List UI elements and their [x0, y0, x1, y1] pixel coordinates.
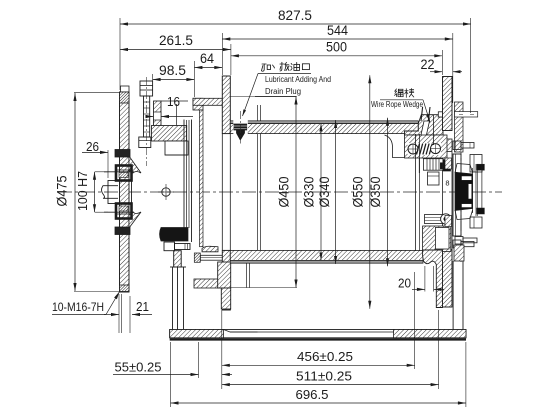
coupling top trapezoid [455, 164, 473, 173]
dim phi475 ext top [74, 91, 119, 93]
dim 544 [222, 38, 452, 40]
svg-text:21: 21 [136, 299, 149, 314]
leader wedge slant [423, 100, 430, 122]
hub nut band upper [115, 150, 130, 158]
dim 696.5 ext [170, 342, 172, 407]
lower clamp bolt shaft [425, 215, 443, 224]
dim phi450 [295, 97, 297, 288]
base plate bottom thick [170, 338, 466, 340]
bolt head band [140, 85, 153, 87]
coupling white slot vertical [468, 184, 471, 199]
drum left flange lower hatched [222, 250, 230, 310]
rope barrel wall upper hatched [230, 124, 418, 134]
wedge slot [420, 121, 430, 141]
lower clamp bolt head [441, 214, 451, 224]
hub sleeve [108, 181, 132, 204]
leader english underline [255, 96, 296, 98]
right bolt lower [453, 240, 461, 248]
svg-text:Drain Plug: Drain Plug [265, 87, 301, 96]
bearing sleeve lines [183, 120, 185, 229]
svg-text:100 H7: 100 H7 [75, 171, 90, 211]
svg-text:16: 16 [167, 95, 180, 109]
right bolt upper [453, 141, 461, 150]
black bits right of spline [443, 160, 451, 171]
support bracket top lines [161, 100, 188, 102]
dim 98.5 [153, 79, 195, 81]
dim 64 extension [221, 33, 223, 75]
support white block below [165, 141, 188, 155]
dim phi475 ext bottom [74, 291, 119, 293]
dim phi350 [387, 118, 389, 266]
svg-text:Wire Rope Wedge: Wire Rope Wedge [371, 100, 423, 109]
dim 100 H7 [94, 172, 96, 212]
svg-text:Lubricant Adding And: Lubricant Adding And [265, 75, 331, 84]
clamp rope strands [417, 144, 420, 155]
dim 827.5 [120, 23, 471, 25]
hub nut band lower [115, 227, 130, 235]
base plate mid step [224, 330, 258, 333]
coupling right lines [472, 168, 474, 213]
dim 500 extension right [441, 50, 443, 75]
bolt lug hump hatched [202, 246, 218, 252]
dim 827.5 extension left [119, 18, 121, 90]
lower rib gusset [129, 212, 141, 228]
dim 55 ext [198, 342, 200, 378]
clamp rope slot white [408, 143, 442, 155]
dim phi340 [335, 120, 337, 264]
drum shell lower hatched [194, 279, 218, 288]
bolt thread ticks [144, 101, 150, 103]
svg-text:696.5: 696.5 [296, 387, 329, 402]
svg-text:55±0.25: 55±0.25 [115, 360, 162, 375]
svg-text:10-M16-7H: 10-M16-7H [52, 300, 104, 314]
base plate left hatched [170, 330, 224, 338]
left flange top dense zone [120, 92, 130, 103]
right bracket stud band [455, 112, 478, 117]
svg-text:500: 500 [326, 40, 347, 55]
dim 511+-0.25 [222, 384, 439, 386]
support hatched block lower [174, 251, 182, 267]
drum left flange face lines [221, 134, 223, 251]
shaft end with break line [102, 186, 119, 199]
right flange inner lines [415, 134, 417, 251]
svg-text:544: 544 [327, 23, 348, 38]
left pedestal column [172, 267, 174, 330]
dim 511 ext [438, 310, 440, 389]
right hatched block bottom [445, 216, 452, 227]
block below spline [428, 172, 440, 185]
svg-text:8: 8 [445, 179, 449, 188]
lubricant plug dark [234, 124, 247, 140]
dim 696.5 [171, 402, 466, 404]
wedge pins [421, 107, 423, 121]
base plate outline [170, 330, 466, 338]
dim phi550 [369, 75, 371, 308]
flange lower pocket white [435, 228, 449, 250]
clamp pocket contour [385, 135, 405, 158]
seal black blob lower [160, 228, 189, 242]
hub key block lower black [116, 204, 132, 219]
base plate right hatched [394, 330, 466, 338]
chinese text shengxie [394, 89, 403, 97]
dim phi475 [74, 93, 76, 291]
right flange upper hatched [443, 77, 453, 131]
clamp bolt circle right [431, 144, 441, 154]
dim 261.5 extension right [230, 44, 232, 75]
svg-text:511±0.25: 511±0.25 [296, 369, 352, 384]
plug pocket white [233, 118, 248, 140]
dim 64 [194, 67, 222, 69]
wedge seat hatch upper [405, 115, 444, 135]
plug centerline [239, 111, 241, 144]
coupling white slot upper [462, 176, 472, 180]
main axis centerline [58, 191, 502, 193]
dim 22 [430, 71, 443, 73]
bolt centerline [145, 77, 147, 166]
svg-text:20: 20 [398, 276, 411, 291]
sleeve top edge [165, 154, 188, 156]
svg-text:Ø350: Ø350 [367, 176, 383, 207]
splined block [423, 159, 443, 171]
rope barrel wall lower hatched [230, 250, 423, 260]
right coupling black mass [455, 172, 473, 210]
bolt shank [144, 96, 150, 137]
dim 98.5 extensions [152, 74, 154, 81]
leader wedge underline [380, 99, 423, 101]
right pedestal hatched block [454, 245, 464, 261]
right flange lower hatched [443, 250, 453, 307]
dim 456 ext [221, 310, 223, 389]
pedestal horizontal bolt head hatched [194, 253, 200, 262]
svg-text:Ø450: Ø450 [276, 176, 292, 207]
wedge clamp block hatched [405, 135, 448, 158]
svg-text:456±0.25: 456±0.25 [297, 349, 353, 364]
drum shell upper hatched [193, 98, 223, 105]
dim phi330 [320, 124, 322, 261]
shaft bore line upper [104, 171, 134, 173]
left pedestal top plate [170, 266, 186, 268]
right bracket column hatched upper [455, 102, 464, 152]
coupling black corner upper [477, 164, 485, 170]
leader lubricant chinese underline [258, 73, 311, 75]
bolt end nut [139, 137, 151, 148]
chinese text jia-fangyoukou [261, 64, 270, 71]
drum interior long lines [257, 105, 259, 250]
rope surface upper gray band [230, 121, 418, 124]
drum web top boss hatched [193, 98, 203, 110]
coupling black corner lower [477, 208, 485, 214]
clamp bolt circle left [408, 144, 418, 154]
left flange top rim [121, 86, 130, 92]
pedestal horizontal bolt shank [200, 255, 229, 260]
dim 500 [231, 55, 442, 57]
svg-text:Ø475: Ø475 [54, 175, 70, 206]
dim phi450 ext lines [230, 96, 297, 98]
pedestal bolt threaded end [229, 256, 238, 260]
left flange bottom tapped block 10-M16 [120, 285, 130, 292]
svg-text:26: 26 [86, 139, 99, 154]
right flange inner seat lower hatched [423, 250, 443, 308]
svg-text:827.5: 827.5 [278, 8, 312, 23]
support hatched band [152, 126, 187, 142]
right flange face lines [442, 152, 444, 250]
base plate mid line [230, 331, 394, 333]
dim 827.5 extension right [470, 18, 472, 113]
bolt head [140, 81, 153, 96]
shaft bore line lower [104, 211, 134, 213]
bolt hole center circle [162, 188, 170, 196]
leader lubricant chinese slant [243, 74, 259, 117]
right flange lower inner hatched [423, 226, 451, 252]
bolt below seal blob [164, 242, 175, 251]
boss block right of bolt hatched [154, 101, 162, 130]
svg-text:98.5: 98.5 [159, 63, 186, 78]
svg-text:Ø330: Ø330 [301, 176, 317, 207]
wedge seat notch white [438, 112, 443, 117]
right stepped blocks upper [470, 155, 482, 173]
right hatched block top [445, 158, 452, 169]
coupling bottom trapezoid [455, 210, 473, 220]
drum web thin wall hatched [200, 110, 204, 247]
hub key block upper black [116, 166, 132, 181]
drum left flange upper hatched [222, 76, 230, 134]
dim 456+-0.25 [222, 364, 415, 366]
svg-text:261.5: 261.5 [159, 33, 193, 48]
right bearing plate [453, 154, 461, 236]
coupling white slot lower [462, 204, 472, 208]
right pedestal columns [452, 261, 454, 331]
right stepped blocks lower [470, 217, 482, 228]
upper rib gusset [129, 156, 141, 173]
left flange plate hatched [120, 92, 130, 292]
right assembly vertical centerline [460, 126, 462, 262]
dim 544 extension right [452, 33, 454, 103]
svg-text:64: 64 [200, 51, 214, 66]
dim 261.5 [120, 49, 231, 51]
svg-text:Ø550: Ø550 [349, 176, 365, 207]
rope surface lower gray band [230, 260, 423, 263]
svg-text:Ø340: Ø340 [316, 176, 332, 207]
dim 100H7 ext [95, 171, 108, 173]
svg-text:22: 22 [421, 57, 435, 72]
right pedestal bolt [455, 237, 463, 245]
